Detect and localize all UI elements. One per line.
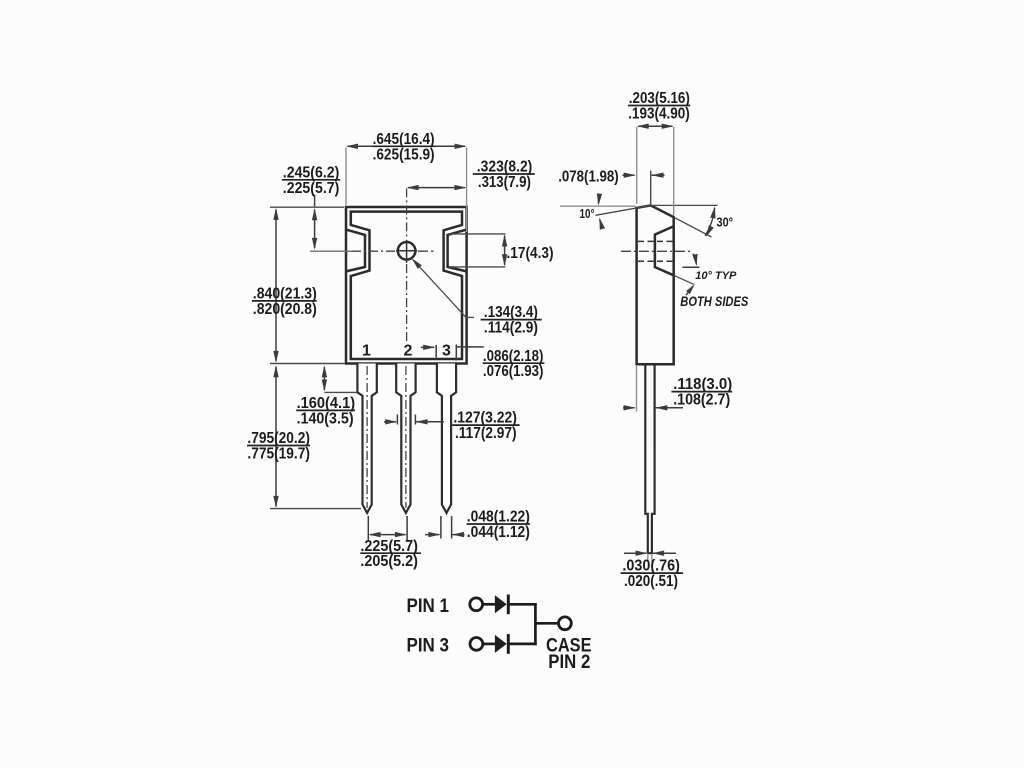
dim .645/.625 dimension line with arrows [348,145,373,147]
svg-text:2: 2 [404,343,413,360]
angle 10deg TYP callout [682,266,699,268]
horizontal centerline through hole [310,250,352,252]
front view: package body outer outline [346,207,467,364]
dim .127/.117 ticks and arrows [396,415,398,425]
svg-text:.078(1.98): .078(1.98) [558,169,619,186]
side view: hole boss profile [655,226,674,275]
side view: package body outline [637,205,674,364]
dim .225/.205 dimension line with arrows [370,534,406,536]
svg-text:.108(2.7): .108(2.7) [673,392,730,409]
pin 2 centerline [405,366,407,508]
svg-text:.205(5.2): .205(5.2) [360,553,418,570]
svg-text:10° TYP: 10° TYP [695,270,737,282]
schematic: diode D2 [495,635,507,653]
dim .118/.108 arrows and extension line [623,407,635,409]
angle 10deg callout left [598,196,600,204]
body top face extension line [270,206,344,208]
svg-text:.020(.51): .020(.51) [624,573,678,590]
schematic: wire pin3 to diode D2 [483,643,496,646]
side view: top face extension line from front view [560,205,636,207]
dim .030/.020 extension lines [647,554,649,562]
dim .086/.076 ticks, arrow and leader [421,346,434,348]
svg-text:.625(15.9): .625(15.9) [373,146,435,163]
side view: hidden hole lines (dashed) [638,240,673,242]
svg-text:PIN 2: PIN 2 [548,652,590,673]
dim .048/.044 extension lines [440,516,442,539]
svg-text:.076(1.93): .076(1.93) [483,363,544,380]
svg-text:.117(2.97): .117(2.97) [455,425,517,442]
schematic: wire pin1 to diode D1 [483,603,496,606]
schematic: pin 1 terminal circle [470,598,483,611]
pin 2 lead [396,364,415,513]
svg-text:3: 3 [442,343,451,360]
svg-text:.044(1.12): .044(1.12) [467,524,530,541]
pin 1 centerline [366,366,368,508]
dim .17(4.3) extension lines [448,233,506,235]
svg-text:.17(4.3): .17(4.3) [507,245,554,262]
side view: 10deg top face reference line [596,205,651,215]
dim .840/.820 dimension line with arrows [275,210,277,362]
front view: left notch trapezoid [346,230,365,272]
vertical centerline through hole [406,188,408,238]
schematic: wire junction to case terminal [535,622,558,625]
dim .245/.225 leader and arrows [314,195,316,207]
schematic: pin 3 terminal circle [470,638,483,651]
svg-text:.193(4.90): .193(4.90) [628,106,690,123]
mounting hole [398,242,416,260]
side view: boss extension line [673,275,693,284]
schematic: case pin 2 terminal circle [559,617,572,630]
svg-text:1: 1 [362,343,371,360]
dim .225/.205 extension lines [367,516,369,540]
svg-text:BOTH SIDES: BOTH SIDES [680,294,748,309]
front view: package body inner border with side-notch detours [351,212,462,359]
dim .134/.114 hole leader arrow [413,260,466,318]
schematic: diode D1 [495,595,507,613]
svg-text:.775(19.7): .775(19.7) [247,446,310,463]
dim .160/.140 dimension line with arrows [323,367,325,390]
side view: horizontal centerline [621,250,691,252]
side view: horizontal reference line from peak [651,204,718,206]
svg-text:.114(2.9): .114(2.9) [484,320,538,337]
dim .17(4.3) dimension line with arrows [504,236,506,266]
dim .030/.020 arrows [624,552,647,554]
dim .795/.775 dimension line with arrows [275,367,277,507]
svg-text:PIN 3: PIN 3 [407,636,450,657]
pin 1 lead [357,364,376,513]
dim .078 arrows and extension [623,174,635,176]
schematic: wire D1 to junction [507,603,537,606]
dim .048/.044 arrows [425,534,440,536]
svg-text:30°: 30° [717,216,734,230]
dim .203/.193 dimension line with arrows [638,125,672,127]
shoulder bottom extension line [324,391,357,393]
mounting hole crosshair [396,250,417,252]
front view: right notch trapezoid [448,230,467,272]
svg-text:10°: 10° [580,207,595,221]
svg-text:.820(20.8): .820(20.8) [253,301,317,318]
schematic: junction vertical wire [534,603,537,645]
schematic: wire D2 to junction [507,643,537,646]
body bottom extension line [270,363,345,365]
svg-text:.225(5.7): .225(5.7) [283,180,340,197]
svg-text:PIN 1: PIN 1 [407,596,450,617]
BOTH SIDES callout [686,284,695,294]
svg-text:.140(3.5): .140(3.5) [297,410,354,427]
side view: 30deg chamfer extension line [674,217,712,237]
pin 3 lead [437,364,456,513]
dim .323(8.2)/.313(7.9) dimension line with arrows [408,187,465,189]
side view: lead [645,364,654,553]
angle 30deg callout [705,208,715,236]
dim .203/.193 extension lines [636,127,638,204]
svg-text:.313(7.9): .313(7.9) [478,174,531,191]
dim .645(16.4)/.625(15.9) body width: extension lines [345,148,347,206]
lead tip extension line [270,508,361,510]
